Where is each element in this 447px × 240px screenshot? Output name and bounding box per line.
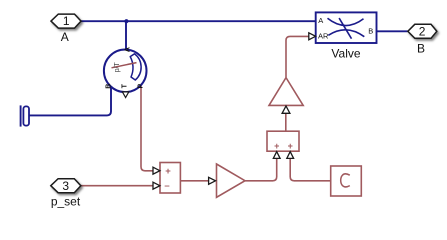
wire port3 to sum1 minus: [81, 185, 153, 187]
valve diagonal: [339, 18, 351, 39]
wire reference to sensor B: [29, 87, 111, 116]
sum1 plus input arrow: [153, 167, 160, 174]
port 3: [51, 179, 81, 193]
gauge crescent: [130, 54, 141, 80]
gain1 block: [269, 78, 303, 106]
svg-text:P: P: [138, 84, 145, 89]
port 2: [408, 24, 437, 38]
wire junction down to sensor A: [125, 21, 127, 50]
svg-text:A: A: [61, 30, 69, 44]
svg-text:B: B: [417, 42, 425, 56]
gauge needle: [112, 63, 137, 68]
junction dot: [124, 19, 128, 23]
valve block: [316, 12, 377, 43]
svg-text:Valve: Valve: [331, 47, 360, 61]
svg-text:+: +: [288, 141, 293, 151]
wire gain2 to sum2 left input: [245, 158, 277, 181]
svg-text:B: B: [368, 27, 373, 36]
svg-text:+: +: [165, 166, 171, 177]
svg-text:B: B: [106, 84, 113, 89]
sum2 right input arrow: [287, 152, 294, 159]
svg-text:p_set: p_set: [51, 195, 81, 209]
sensor block pT: [104, 47, 147, 97]
gain1 input arrow: [282, 106, 290, 113]
valve bottom curve: [328, 30, 364, 37]
svg-text:A: A: [318, 16, 323, 25]
sum2 left input arrow: [273, 152, 280, 159]
gain2 block: [217, 164, 246, 197]
wire port1 to valve A: [81, 20, 316, 22]
wire sum2 to gain1: [285, 113, 287, 131]
valve AR input arrow: [309, 33, 316, 40]
wire gain1 to valve AR: [286, 36, 309, 77]
wire valve B to port2: [377, 30, 408, 32]
valve top curve: [328, 18, 364, 25]
sum1 minus input arrow: [153, 182, 160, 189]
reference block: [21, 105, 29, 126]
unconnected T output marker: [122, 92, 128, 98]
svg-text:3: 3: [62, 179, 69, 193]
svg-text:1: 1: [63, 14, 70, 28]
svg-text:AR: AR: [318, 32, 329, 41]
svg-text:A: A: [125, 47, 132, 52]
wire sum1 to gain2: [180, 180, 209, 182]
sum2 block: [267, 131, 299, 151]
svg-text:–: –: [164, 181, 169, 192]
wire sensor P to sum1 plus: [141, 84, 153, 171]
svg-text:2: 2: [419, 24, 426, 38]
constant C block: [331, 166, 362, 196]
svg-text:+: +: [274, 141, 279, 151]
wire constant C to sum2 right input: [290, 158, 331, 181]
svg-text:p/T: p/T: [114, 62, 121, 73]
port 1: [51, 14, 81, 28]
sum1 block: [160, 163, 180, 194]
svg-text:T: T: [121, 83, 128, 88]
gain2 input arrow: [209, 177, 216, 184]
